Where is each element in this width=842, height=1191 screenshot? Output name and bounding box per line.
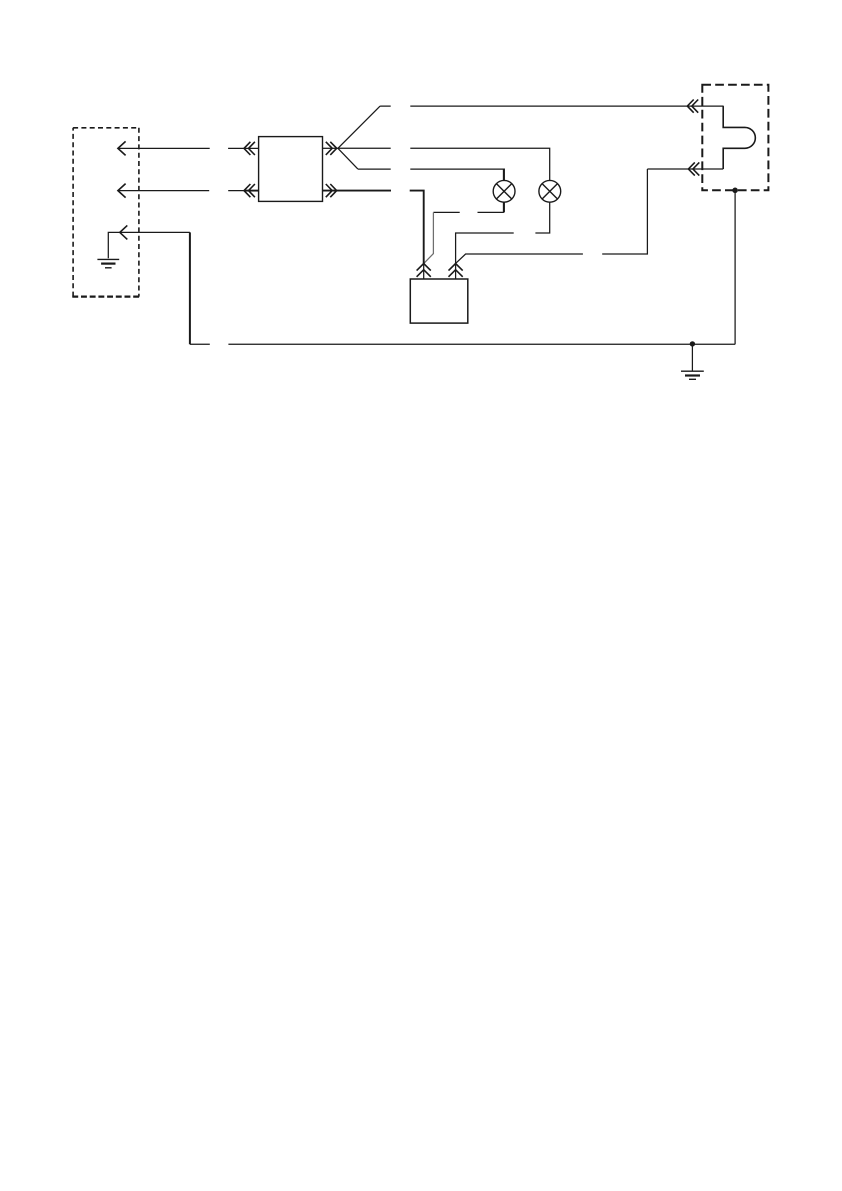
connector arrow (double chevron) at bulb connector lower pin [688, 162, 699, 175]
wire: fan diagonal down [338, 148, 358, 169]
wire (thick): K1 right pin4 [323, 191, 424, 264]
wire: J1 pin1 to relay K1 pin1 [118, 147, 259, 149]
bulb connector J2 (right dashed box) [702, 85, 768, 191]
wire (thick) into relay K1 pin2 [244, 190, 259, 192]
arrow terminal pin 3 of J1 [120, 225, 128, 239]
wire: feed to lamp L1 [358, 168, 504, 170]
arrow terminal pin 2 of J1 [118, 184, 126, 198]
bulb symbol inside J2 [723, 106, 755, 169]
arrow terminal pin 1 of J1 [118, 141, 126, 155]
wire: bottom ground bus [190, 343, 735, 345]
junction dot on ground bus [690, 341, 695, 346]
ground symbol G2 [681, 370, 704, 372]
junction dot on J2 bottom edge [732, 188, 738, 194]
wire: run into bulb connector lower pin [647, 168, 723, 170]
wire: J1 pin3 stub to ground [108, 232, 190, 258]
wire: stub into fuel pump pin B [455, 263, 457, 279]
connector arrow (double chevron) at K1 pin4 right [326, 184, 337, 197]
wire: stub to ground G2 [691, 344, 693, 371]
lamp L2 (circle-cross) [539, 180, 561, 202]
wire: lamp L2 bottom to connector pin B [456, 202, 550, 263]
connector arrow (up double chevron) at pump pin B [449, 264, 463, 277]
fuel pump unit M1 (bottom box) [410, 279, 468, 323]
lamp L1 (circle-cross) [493, 180, 515, 202]
wire: stub into fuel pump pin A [423, 263, 425, 279]
wire (thick stub) lamp L1 bottom [503, 202, 505, 212]
relay / control unit K1 (center box) [259, 137, 323, 202]
connector arrow (double chevron) at relay K1 pin1 left [244, 142, 255, 155]
wire: K1 right pin3 to fan point [323, 147, 338, 149]
connector arrow (up double chevron) at pump pin A [417, 264, 431, 277]
wire (thick): J1 pin3 down leg [189, 232, 191, 344]
wire: top feed to bulb connector [380, 105, 723, 107]
wire: fan diagonal up [338, 106, 380, 148]
wire: J2 ground drop [734, 190, 736, 344]
wire (thick stub) lamp L1 top [503, 169, 505, 181]
wire (light): drop to pin A with jog [424, 212, 434, 263]
wire: J1 pin2 to relay K1 pin2 [118, 190, 244, 192]
connector arrow (double chevron) at K1 pin3 right [326, 142, 337, 155]
ground symbol G1 (inside J1) [97, 258, 119, 260]
wire: pump pin B jog to return line [456, 169, 648, 263]
connector block J1 (left dashed box) [73, 128, 139, 297]
connector arrow (double chevron) at bulb connector top pin [687, 100, 698, 113]
wire: fan middle to lamp L2 [338, 148, 550, 180]
wire: lamp L1 bottom run to connector pin A [433, 211, 504, 213]
connector arrow (double chevron) at relay K1 pin2 left [244, 184, 255, 197]
